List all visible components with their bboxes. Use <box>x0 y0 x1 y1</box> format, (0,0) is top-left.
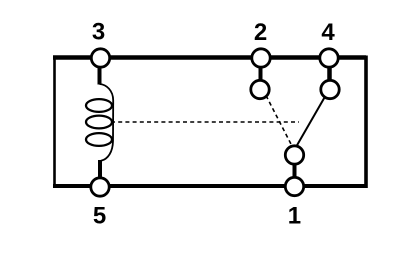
pin 2 terminal circle <box>252 49 270 67</box>
svg-text:1: 1 <box>288 203 301 230</box>
armature common circle (above pin 1) <box>285 146 303 164</box>
NC contact circle (below pin 2) <box>251 80 269 98</box>
wire: stub pin 2 to its contact <box>259 66 263 82</box>
coil L1: bottom lead stub to pin 5 <box>98 160 102 178</box>
coil L1: bottom exit arc <box>101 141 113 161</box>
pin 3 terminal circle <box>91 49 109 67</box>
coil L1: top entry arc <box>100 84 114 101</box>
svg-text:5: 5 <box>93 203 106 230</box>
coil L1: loop 2 <box>86 116 112 129</box>
NO contact circle (below pin 4) <box>321 80 339 98</box>
wire: mechanical linkage dashed line from coil to armature <box>111 121 299 123</box>
relay body outline: left edge <box>53 56 56 189</box>
pin 4 terminal circle <box>320 49 338 67</box>
svg-text:2: 2 <box>254 19 267 46</box>
pin 5 terminal circle <box>91 178 109 196</box>
wire: solid armature lever to NO contact (pin 4) <box>296 98 325 148</box>
relay body outline: top edge <box>53 55 366 60</box>
relay body outline: bottom edge <box>53 184 366 188</box>
relay body outline: right edge <box>364 56 368 189</box>
pin 1 terminal circle <box>285 177 303 195</box>
coil L1: loop 3 <box>86 133 112 146</box>
coil L1: right spine <box>112 101 114 142</box>
svg-text:3: 3 <box>92 19 105 46</box>
svg-text:4: 4 <box>321 19 335 46</box>
coil L1: top lead stub from pin 3 <box>98 66 102 85</box>
wire: dashed contact line from NC contact (pin 2) to armature <box>266 96 293 148</box>
wire: stub pin 4 to its contact <box>327 66 332 82</box>
wire: stub pin 1 to armature pivot <box>293 163 297 178</box>
coil L1: loop 1 <box>86 99 112 112</box>
